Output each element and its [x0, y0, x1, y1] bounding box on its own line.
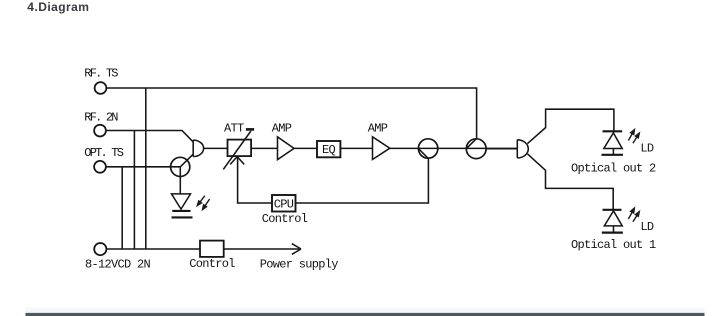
svg-text:Control: Control — [262, 212, 308, 226]
svg-text:4.Diagram: 4.Diagram — [27, 0, 89, 14]
svg-text:RF. 2N: RF. 2N — [84, 110, 118, 124]
svg-text:ATT: ATT — [224, 122, 244, 136]
svg-text:Optical out 1: Optical out 1 — [571, 238, 656, 252]
svg-text:8-12VCD 2N: 8-12VCD 2N — [85, 257, 151, 271]
svg-text:Optical out 2: Optical out 2 — [571, 161, 656, 175]
svg-text:EQ: EQ — [322, 143, 336, 157]
svg-text:OPT. TS: OPT. TS — [84, 146, 123, 160]
svg-text:AMP: AMP — [368, 122, 388, 136]
svg-text:Control: Control — [189, 257, 235, 271]
svg-text:Power supply: Power supply — [260, 258, 339, 272]
svg-text:CPU: CPU — [274, 198, 294, 212]
svg-text:AMP: AMP — [272, 121, 292, 135]
svg-text:RF. TS: RF. TS — [84, 67, 118, 81]
svg-text:LD: LD — [640, 141, 654, 155]
svg-text:LD: LD — [640, 220, 654, 234]
